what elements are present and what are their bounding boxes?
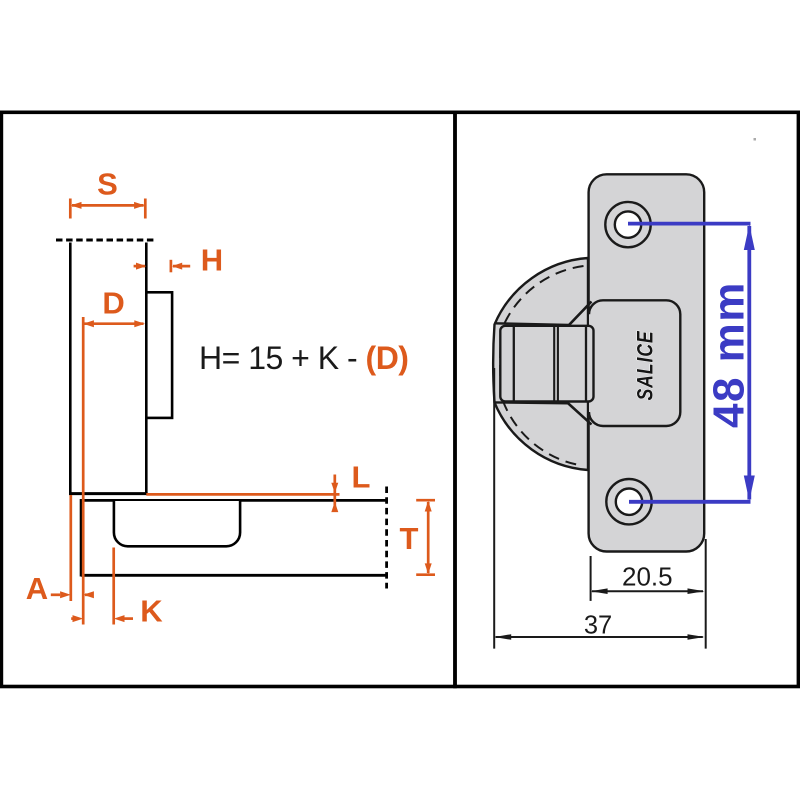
bottom screw hole inner — [616, 489, 642, 515]
dimension D line — [85, 322, 144, 325]
hinge cup plate on door — [146, 292, 172, 418]
dimension K (arrows outside) — [71, 617, 133, 620]
svg-text:48 mm: 48 mm — [705, 281, 754, 428]
dimension line 20.5 — [592, 590, 703, 592]
chamfer bottom-left of boss — [568, 403, 592, 425]
dashed top reference line of door — [56, 239, 157, 242]
central boss (arm mount) — [589, 300, 680, 426]
long orange vertical line at cabinet front face (D/K reference) — [82, 317, 85, 625]
right panel frame — [455, 112, 798, 686]
svg-text:37: 37 — [584, 612, 612, 640]
dimension L (vertical, arrows outside) — [333, 475, 336, 512]
svg-text:T: T — [400, 521, 419, 556]
orange extension of door outer face — [69, 495, 72, 601]
cup drilling notch in cabinet — [114, 501, 240, 546]
door right edge — [145, 243, 148, 494]
top screw hole inner — [615, 211, 641, 237]
extension line from plate right bottom — [705, 539, 707, 649]
door bottom edge — [69, 492, 148, 495]
cabinet panel top edge — [81, 499, 387, 502]
svg-text:K: K — [140, 594, 163, 629]
blue arrowhead up — [744, 225, 755, 251]
orange extension line at cup hole edge — [112, 548, 115, 625]
mounting plate — [589, 174, 705, 551]
visor top piece bottom edge — [494, 302, 591, 326]
door left edge — [69, 243, 72, 495]
blue arrowhead down — [744, 476, 755, 502]
svg-text:SALICE: SALICE — [633, 330, 658, 400]
chamfer top-left of boss — [569, 302, 592, 326]
dimension H (arrows outside, span door face to cup face) — [134, 260, 191, 273]
blue leader from bottom hole — [629, 500, 751, 504]
extension line from plate left bottom — [590, 556, 592, 601]
svg-text:D: D — [102, 286, 124, 321]
dimension S arrowheads — [71, 202, 82, 209]
blue vertical dimension line — [747, 226, 751, 500]
extension line from dome left — [493, 368, 495, 649]
hinge wing dome (back body) — [493, 258, 588, 470]
cabinet panel bottom edge — [81, 574, 387, 577]
pivot block inner line 2 — [585, 326, 587, 401]
black dimensions bottom right — [494, 368, 706, 649]
dashed cut line right side of cabinet panel — [385, 487, 388, 589]
lower lobe top edge — [494, 402, 591, 424]
top screw hole outer — [605, 202, 650, 247]
artifact dot — [754, 138, 757, 141]
dimension S line — [70, 199, 145, 219]
svg-text:A: A — [26, 571, 48, 606]
pivot block — [500, 326, 593, 402]
pivot block inner line 1 — [513, 327, 515, 401]
blue leader from top hole — [628, 222, 751, 226]
arrowheads 37 — [494, 634, 511, 640]
pivot block inner line pair — [553, 326, 555, 401]
svg-text:H: H — [201, 242, 223, 277]
svg-text:L: L — [352, 460, 371, 495]
dimension line 37 — [496, 636, 703, 638]
blue 48 mm dimension — [628, 224, 751, 502]
dimension A (arrows outside) — [51, 593, 94, 596]
left panel frame — [1, 112, 455, 686]
dimension T (vertical with end ticks) — [416, 500, 435, 575]
cabinet panel left edge — [80, 499, 83, 577]
svg-text:S: S — [97, 167, 118, 202]
svg-text:H= 15 + K - (D): H= 15 + K - (D) — [199, 340, 408, 376]
bottom screw hole outer — [606, 479, 651, 524]
svg-text:20.5: 20.5 — [622, 561, 673, 591]
arrowheads 20.5 — [591, 588, 608, 594]
dashed arc inside dome — [500, 266, 583, 465]
orange door-bottom extension line — [146, 493, 339, 496]
